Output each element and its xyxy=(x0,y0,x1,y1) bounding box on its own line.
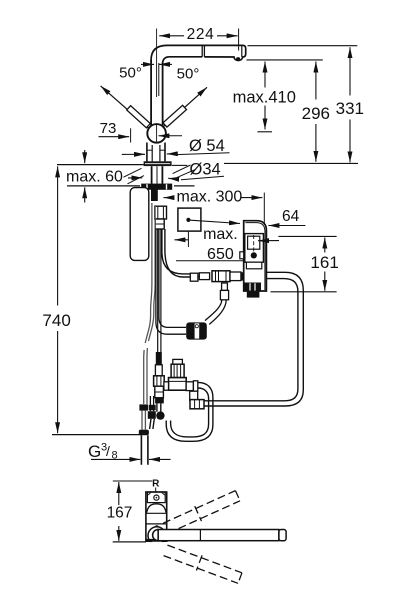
hose to tee going down xyxy=(156,229,186,334)
hot hose connector chain to control box xyxy=(190,273,198,281)
U hose from valve right xyxy=(166,382,213,441)
tee pipe dark top xyxy=(156,352,162,365)
check valve lower xyxy=(155,386,164,398)
dimension 167 line arrows xyxy=(118,482,120,541)
svg-text:331: 331 xyxy=(336,99,364,118)
check valve nut xyxy=(155,397,164,403)
counter top line left of label xyxy=(172,164,187,166)
control box left inlet port xyxy=(241,272,244,280)
solenoid valve body xyxy=(169,378,187,391)
svg-text:max. 60: max. 60 xyxy=(66,169,123,186)
counter top extension line right xyxy=(224,162,358,164)
tee body dark xyxy=(148,411,156,419)
escutcheon flange xyxy=(144,161,172,166)
body plan view outline xyxy=(146,492,167,541)
svg-text:G: G xyxy=(88,442,101,461)
body top cap xyxy=(147,492,165,503)
elbow fitting dark xyxy=(156,411,164,419)
svg-text:161: 161 xyxy=(310,253,338,272)
max 300 extension line at box xyxy=(263,193,265,225)
cold hose loop from box right xyxy=(204,272,303,406)
neck outer left xyxy=(146,143,148,162)
hose nut xyxy=(190,400,204,409)
mounting nut xyxy=(141,184,172,190)
hot hose curving right to connector xyxy=(162,229,190,274)
leader line lever right 50deg xyxy=(163,87,207,126)
ball joint xyxy=(147,124,166,143)
gray hose upper fitting xyxy=(139,404,148,410)
dimension 224 extension line right xyxy=(238,29,240,51)
control box sensor dot xyxy=(251,252,257,258)
supply connection ref line xyxy=(52,434,141,436)
dimension 73 line xyxy=(99,136,130,138)
161 bottom extension line xyxy=(271,291,337,293)
pipe below check valve xyxy=(156,403,158,411)
faucet pipe left edge xyxy=(150,60,152,126)
hose from elbow to filter xyxy=(209,300,226,325)
max 300 arrows xyxy=(163,197,262,199)
power plug dot xyxy=(186,218,190,222)
diameter 54 underline leader xyxy=(176,153,230,155)
aerator dot xyxy=(236,57,240,60)
control box bottom dark parts xyxy=(245,283,262,292)
spout outline xyxy=(151,45,246,62)
spray head end cap line xyxy=(241,45,243,57)
neck outer right xyxy=(164,143,166,162)
svg-text:50°: 50° xyxy=(119,65,142,82)
counter bottom line xyxy=(67,185,140,187)
G3/8 dimension arrows xyxy=(91,458,171,460)
dimension 73 extension line xyxy=(130,128,132,142)
svg-text:max. 300: max. 300 xyxy=(177,189,243,206)
dashed swivel arm upper xyxy=(162,488,241,536)
spout bar divider xyxy=(199,530,201,541)
diameter 34 arrows xyxy=(128,178,179,180)
svg-text:max.: max. xyxy=(203,226,238,243)
control box inner compartment xyxy=(245,234,264,263)
valve right connector xyxy=(186,382,193,391)
spout underside extension line xyxy=(247,59,323,61)
neck joint ticks xyxy=(147,149,152,151)
spray head joint lines xyxy=(201,45,203,56)
power plug box xyxy=(178,208,201,231)
leader line lever left 50deg xyxy=(101,86,150,130)
G38 connection nut xyxy=(139,430,149,436)
svg-text:max.410: max.410 xyxy=(233,89,296,107)
body section line xyxy=(146,523,167,525)
dimension 161 line arrows xyxy=(324,238,326,291)
counter hatch right xyxy=(173,165,191,174)
neck inner left xyxy=(151,145,153,161)
lever handle left tilted xyxy=(127,106,151,128)
ball leader arrow xyxy=(158,135,182,137)
valve left hex xyxy=(164,382,169,390)
connector block 2 xyxy=(155,219,164,229)
second pipe into tee xyxy=(149,396,151,411)
dimension 224 line with arrows xyxy=(159,35,237,37)
sensor leader arrow xyxy=(258,240,279,242)
control box left port upper xyxy=(240,252,244,259)
gray supply hose pair going down-left xyxy=(144,203,152,404)
hose guide rounded box xyxy=(130,188,149,261)
inline filter xyxy=(186,322,207,339)
body dome arc xyxy=(147,504,167,513)
svg-text:167: 167 xyxy=(107,505,133,522)
max650 arrow to hose xyxy=(174,239,188,241)
50 degree arrow pair at pipe xyxy=(141,63,172,65)
svg-text:50°: 50° xyxy=(177,66,200,83)
svg-text:224: 224 xyxy=(187,26,215,43)
control box outline xyxy=(244,221,267,291)
svg-text:296: 296 xyxy=(302,104,330,123)
167 top extension line xyxy=(113,480,153,482)
svg-text:Ø34: Ø34 xyxy=(190,161,221,179)
neck inner right xyxy=(159,145,161,161)
spout bar plan view xyxy=(153,530,159,541)
lever handle right tilted xyxy=(163,105,187,127)
pull-out hose line inside pipe xyxy=(158,63,160,96)
spout pivot circle xyxy=(148,527,166,545)
counter top line xyxy=(57,164,144,166)
dimension 296 line arrows xyxy=(315,62,317,162)
svg-text:740: 740 xyxy=(42,311,70,330)
connector block 1 xyxy=(155,206,167,219)
counter bottom line right xyxy=(174,185,195,187)
svg-text:73: 73 xyxy=(100,120,117,137)
spout top extension line right xyxy=(248,45,358,47)
diameter 34 underline leader xyxy=(181,176,224,180)
ball centerline xyxy=(156,124,158,144)
max 60 arrows xyxy=(84,150,86,203)
gray hose lower segment xyxy=(141,411,143,430)
filter elbow below box xyxy=(222,283,228,290)
diameter 54 arrows xyxy=(122,153,176,156)
cable line under 650 xyxy=(176,260,245,262)
plug cable leader arrow to box xyxy=(191,220,241,223)
faucet pipe right edge xyxy=(162,63,164,126)
dimension 331 line arrows xyxy=(349,47,351,162)
body dot xyxy=(155,525,158,528)
supply pipe G3/8 xyxy=(140,435,142,465)
counter hatch left xyxy=(124,168,142,177)
svg-text:Ø 54: Ø 54 xyxy=(189,137,225,155)
control box lower section xyxy=(246,262,261,269)
svg-text:64: 64 xyxy=(282,208,300,225)
dimension max410 line arrows xyxy=(257,62,272,132)
shank below flange xyxy=(151,166,153,184)
svg-text:/: / xyxy=(106,443,110,459)
161 top extension line xyxy=(278,235,336,237)
body bottom edge xyxy=(146,539,167,542)
check valve hex xyxy=(154,376,165,386)
167 bottom extension line xyxy=(113,541,146,543)
solenoid valve cartridge xyxy=(173,359,183,364)
dimension 740 line xyxy=(57,166,59,305)
spout inner elbow edge xyxy=(163,57,203,63)
dimension 64 line arrow xyxy=(268,225,305,227)
stub below valve connector xyxy=(190,391,198,400)
threaded shank dark xyxy=(151,188,158,201)
plug extension line down xyxy=(187,231,189,247)
centerline of faucet body xyxy=(156,29,158,98)
tee outlet pipe down xyxy=(150,419,151,429)
dashed swivel arm lower xyxy=(163,543,243,586)
check valve upper xyxy=(155,365,162,376)
